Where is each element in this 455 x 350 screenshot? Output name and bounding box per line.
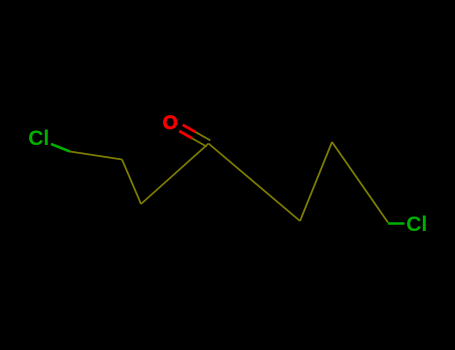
carbonyl double bond C=O (olive halves near C) — [196, 132, 211, 140]
wire bond C3-C4 (to carbonyl carbon) — [141, 144, 209, 205]
bond C7-Cl2 (green, horizontal) — [388, 222, 405, 225]
wire bond C5-C6 (steep rise) — [300, 142, 332, 221]
svg-text:Cl: Cl — [28, 127, 49, 150]
wire bond C6-C7 (long descent to Cl side) — [332, 142, 388, 223]
wire bond C4-C5 (long descent) — [209, 144, 301, 222]
carbonyl double bond C=O (red halves near O) — [183, 125, 196, 132]
svg-text:Cl: Cl — [406, 213, 427, 236]
svg-text:O: O — [163, 112, 178, 134]
bond Cl1-C1 (green) — [51, 144, 70, 152]
wire bond C1-C2 — [70, 152, 122, 160]
wire bond C2-C3 — [122, 160, 141, 205]
